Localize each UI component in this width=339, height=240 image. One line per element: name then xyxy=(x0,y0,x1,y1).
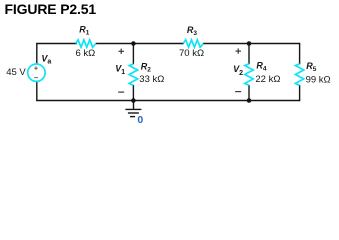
voltage source minus sign xyxy=(34,77,38,79)
resistor R1 zigzag xyxy=(76,40,96,47)
svg-text:45 V: 45 V xyxy=(6,67,26,78)
svg-text:V2: V2 xyxy=(233,64,243,77)
resistor R2 zigzag xyxy=(129,64,137,86)
minus sign V2 xyxy=(235,91,241,93)
voltage source Va circle xyxy=(28,64,45,81)
ground bar 1 xyxy=(125,108,141,110)
wire R2 branch lower xyxy=(132,85,134,101)
wire bottom xyxy=(36,100,300,102)
wire R4 branch upper xyxy=(248,44,250,65)
junction node R4 bottom xyxy=(247,98,252,103)
svg-text:FIGURE P2.51: FIGURE P2.51 xyxy=(5,1,97,17)
ground bar 3 xyxy=(130,116,135,118)
wire R2 branch upper xyxy=(132,44,134,65)
minus sign V1 xyxy=(118,91,124,93)
ground bar 2 xyxy=(128,112,139,114)
wire right upper xyxy=(299,43,301,64)
svg-text:R2: R2 xyxy=(141,62,152,74)
wire left upper xyxy=(36,43,38,64)
wire top-right segment xyxy=(203,43,300,45)
svg-text:0: 0 xyxy=(137,114,143,126)
junction node R2 bottom xyxy=(131,98,136,103)
wire right lower xyxy=(299,85,301,101)
junction node R4 top xyxy=(247,41,252,46)
resistor R3 zigzag xyxy=(183,40,203,47)
plus sign V1 xyxy=(119,49,125,54)
svg-text:33 kΩ: 33 kΩ xyxy=(139,74,164,85)
plus sign V2 xyxy=(236,48,242,53)
svg-text:70 kΩ: 70 kΩ xyxy=(179,48,204,59)
junction node R2 top xyxy=(131,41,136,46)
svg-text:Va: Va xyxy=(41,54,51,66)
wire top-left segment xyxy=(36,43,77,45)
svg-text:R1: R1 xyxy=(79,25,90,37)
ground stub xyxy=(133,101,135,110)
svg-text:R3: R3 xyxy=(187,25,198,37)
wire left lower xyxy=(36,82,38,101)
voltage source plus sign xyxy=(34,66,38,70)
resistor R4 zigzag xyxy=(245,64,253,86)
svg-text:6 kΩ: 6 kΩ xyxy=(76,48,96,59)
svg-text:R4: R4 xyxy=(256,61,267,73)
wire top-middle segment xyxy=(96,43,184,45)
svg-text:R5: R5 xyxy=(306,61,317,73)
wire R4 branch lower xyxy=(248,85,250,101)
resistor R5 zigzag xyxy=(295,64,303,86)
svg-text:V1: V1 xyxy=(115,63,125,76)
svg-text:22 kΩ: 22 kΩ xyxy=(255,74,280,85)
svg-text:99 kΩ: 99 kΩ xyxy=(306,74,331,85)
